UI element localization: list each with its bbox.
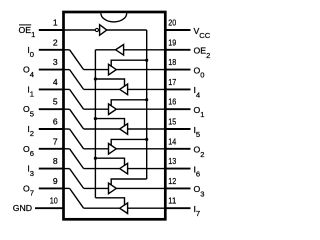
label O4 (pin 3) [23,65,34,79]
svg-text:6: 6 [53,117,58,127]
svg-text:18: 18 [168,57,176,67]
svg-text:9: 9 [53,176,58,186]
svg-text:GND: GND [13,203,32,213]
wire output of buffer O0 [116,69,165,71]
wire pin 4 inside segment [64,88,70,90]
pin 13 stub [165,168,190,170]
wire diagonal from pin 8 row [70,169,84,189]
label O6 (pin 7) [23,144,34,158]
pin 16 stub [165,108,190,110]
wire input to buffer O3 [84,187,109,189]
wire output of buffer O4 [84,88,120,90]
wire OE1 rail horizontal [107,29,147,31]
wire pin 8 inside segment [64,168,70,170]
wire output of buffer O2 [116,148,165,150]
svg-text:14: 14 [168,136,176,146]
svg-text:5: 5 [53,97,58,107]
wire output of buffer O5 [84,128,120,130]
label OE1 (pin 1) [19,25,36,39]
label I4 (pin 17) [194,85,201,99]
junction dot OE1 rail / O0 enable [145,59,148,62]
pin 19 stub [165,49,190,51]
wire pin19 OE2 input [124,49,166,51]
wire output of buffer O3 [116,187,165,189]
wire pin 5 inside segment [64,108,70,110]
buffer O7 [120,203,128,214]
svg-text:20: 20 [168,18,176,28]
label I1 (pin 4) [27,84,34,98]
wire diagonal from pin 6 row [70,129,84,149]
svg-text:12: 12 [168,176,176,186]
label I7 (pin 11) [194,204,201,218]
wire pin1 OE1 to enable inverter [64,29,96,31]
wire input to buffer O1 [84,108,109,110]
svg-text:13: 13 [168,156,176,166]
buffer O5 [120,124,128,135]
pin 3 stub [39,69,64,71]
wire pin 3 inside segment [64,69,70,71]
wire input to buffer O4 [128,88,166,90]
junction dot OE2 rail / O4 enable [94,77,97,80]
label O7 (pin 9) [23,183,34,197]
enable buffer OE2 [116,45,124,56]
enable buffer OE1 [100,25,107,36]
svg-text:8: 8 [53,156,58,166]
enable stub for buffer O6 [95,158,124,166]
wire input to buffer O2 [84,148,109,150]
buffer O2 [109,144,117,155]
wire input to buffer O5 [128,128,166,130]
enable stub for buffer O4 [95,79,124,87]
enable inverter bubble (OE1 active low) [95,28,98,31]
wire input to buffer O7 [128,207,166,209]
enable stub for buffer O2 [111,139,147,145]
wire OE2 rail horizontal [95,49,115,51]
pin 2 stub [39,49,64,51]
pin 1 stub [39,29,64,31]
label VCC (pin 20) [194,26,211,40]
wire input to buffer O6 [128,168,166,170]
pin 17 stub [165,88,190,90]
pin 14 stub [165,148,190,150]
pin 1 end notch [101,13,127,22]
junction dot OE1 rail / O2 enable [145,138,148,141]
svg-text:17: 17 [168,77,176,87]
wire pin 6 inside segment [64,128,70,130]
buffer O3 [109,183,117,194]
junction dot OE2 rail / O6 enable [94,157,97,160]
label O1 (pin 16) [194,105,205,119]
label I6 (pin 13) [194,164,201,178]
enable stub for buffer O1 [111,100,147,106]
svg-text:19: 19 [168,37,176,47]
enable stub for buffer O0 [111,60,147,66]
svg-text:16: 16 [168,97,176,107]
pin 8 stub [39,168,64,170]
IC body outline [64,12,166,219]
enable stub for buffer O5 [95,119,124,127]
label I2 (pin 6) [27,124,34,138]
pin 6 stub [39,128,64,130]
label I0 (pin 2) [27,45,34,59]
label O2 (pin 14) [194,145,205,159]
svg-text:4: 4 [53,77,58,87]
buffer O1 [109,104,117,115]
enable stub for buffer O3 [111,179,147,185]
wire OE2 rail vertical [94,50,96,198]
junction dot OE2 rail / O5 enable [94,117,97,120]
wire OE1 rail vertical [146,30,148,179]
label O3 (pin 12) [194,184,205,198]
enable stub for buffer O7 [95,198,124,206]
svg-text:2: 2 [53,37,58,47]
buffer O0 [109,64,117,75]
pin 5 stub [39,108,64,110]
label GND (pin 10) [13,203,32,213]
svg-text:1: 1 [53,18,58,28]
pin 4 stub [39,88,64,90]
wire diagonal from pin 5 row [70,109,84,129]
svg-text:10: 10 [50,196,58,206]
svg-text:3: 3 [53,57,58,67]
pin 18 stub [165,69,190,71]
pin 15 stub [165,128,190,130]
pin 9 stub [39,187,64,189]
pin 7 stub [39,148,64,150]
label I3 (pin 8) [27,164,34,178]
wire diagonal from pin 3 row [70,70,84,90]
wire diagonal from pin 4 row [70,89,84,109]
wire pin 7 inside segment [64,148,70,150]
label OE2 (pin 19) [194,46,211,60]
wire diagonal from pin 7 row [70,149,84,169]
buffer O4 [120,84,128,95]
wire pin 9 inside segment [64,187,70,189]
label O0 (pin 18) [194,65,205,79]
wire diagonal from pin 2 row [70,50,84,70]
label O5 (pin 5) [23,104,34,118]
svg-text:7: 7 [53,136,58,146]
pin 12 stub [165,187,190,189]
wire output of buffer O7 [84,207,120,209]
svg-text:11: 11 [168,196,176,206]
pin 20 stub [165,29,190,31]
wire diagonal from pin 9 row [70,188,84,208]
svg-text:15: 15 [168,117,176,127]
junction dot OE1 rail / O1 enable [145,98,148,101]
buffer O6 [120,163,128,174]
wire output of buffer O1 [116,108,165,110]
wire pin 2 inside segment [64,49,70,51]
label I5 (pin 15) [194,125,201,139]
pin 10 stub [35,207,64,209]
pin 11 stub [165,207,190,209]
wire input to buffer O0 [84,69,109,71]
wire output of buffer O6 [84,168,120,170]
